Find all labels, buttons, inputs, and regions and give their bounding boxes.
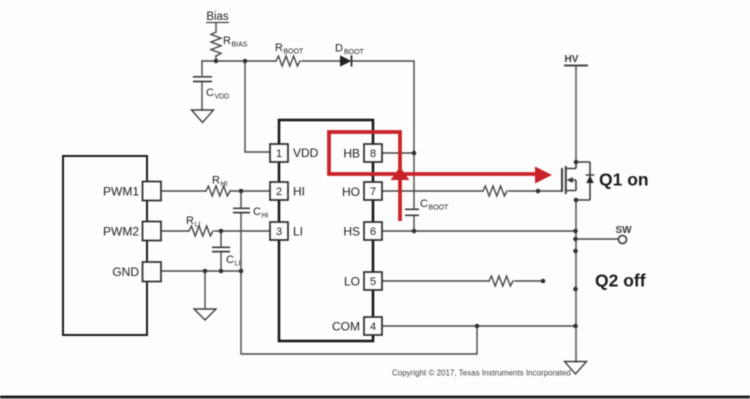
svg-text:PWM2: PWM2 bbox=[103, 225, 139, 239]
svg-text:LI: LI bbox=[235, 261, 241, 268]
svg-text:LI: LI bbox=[195, 222, 201, 229]
svg-text:R: R bbox=[212, 175, 220, 187]
svg-text:SW: SW bbox=[615, 225, 632, 236]
svg-text:8: 8 bbox=[370, 148, 376, 160]
svg-text:C: C bbox=[253, 206, 261, 218]
svg-text:Copyright © 2017, Texas Instru: Copyright © 2017, Texas Instruments Inco… bbox=[392, 369, 571, 378]
svg-text:BIAS: BIAS bbox=[232, 42, 248, 49]
svg-text:PWM1: PWM1 bbox=[103, 185, 139, 199]
svg-text:C: C bbox=[226, 254, 234, 266]
svg-text:D: D bbox=[335, 43, 343, 55]
svg-text:5: 5 bbox=[370, 276, 376, 288]
svg-text:R: R bbox=[186, 215, 194, 227]
svg-text:Q2 off: Q2 off bbox=[595, 271, 646, 291]
svg-text:R: R bbox=[275, 42, 283, 54]
svg-text:HO: HO bbox=[342, 185, 360, 199]
svg-text:LI: LI bbox=[293, 225, 303, 239]
svg-text:C: C bbox=[420, 198, 428, 210]
svg-text:7: 7 bbox=[370, 186, 376, 198]
svg-text:COM: COM bbox=[332, 320, 360, 334]
svg-text:LO: LO bbox=[344, 275, 360, 289]
svg-text:2: 2 bbox=[276, 186, 282, 198]
svg-text:HS: HS bbox=[343, 225, 360, 239]
svg-text:HI: HI bbox=[262, 213, 269, 220]
svg-text:GND: GND bbox=[112, 265, 139, 279]
svg-text:C: C bbox=[206, 87, 214, 99]
svg-text:1: 1 bbox=[276, 148, 282, 160]
svg-text:HI: HI bbox=[221, 181, 228, 188]
svg-text:HB: HB bbox=[343, 147, 360, 161]
svg-text:Bias: Bias bbox=[206, 11, 229, 23]
svg-text:BOOT: BOOT bbox=[284, 49, 305, 56]
svg-text:BOOT: BOOT bbox=[344, 49, 365, 56]
svg-text:HV: HV bbox=[565, 54, 579, 65]
svg-text:VDD: VDD bbox=[215, 94, 230, 101]
svg-text:3: 3 bbox=[276, 226, 282, 238]
svg-text:4: 4 bbox=[370, 321, 376, 333]
svg-text:R: R bbox=[223, 35, 231, 47]
svg-text:6: 6 bbox=[370, 226, 376, 238]
svg-text:Q1 on: Q1 on bbox=[599, 170, 649, 190]
svg-text:VDD: VDD bbox=[293, 146, 319, 160]
svg-text:BOOT: BOOT bbox=[429, 205, 450, 212]
svg-text:HI: HI bbox=[293, 185, 305, 199]
